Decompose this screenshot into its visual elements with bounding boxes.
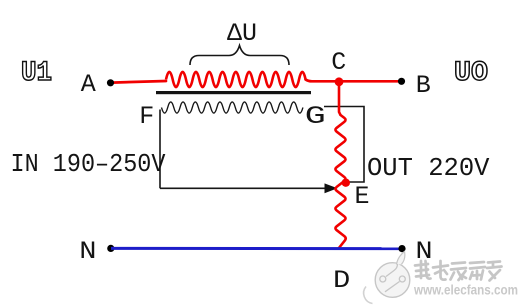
svg-text:www.elecfans.com: www.elecfans.com bbox=[413, 282, 518, 298]
node B terminal dot bbox=[398, 78, 405, 85]
wire C down to winding bbox=[339, 82, 341, 115]
svg-text:B: B bbox=[416, 71, 431, 100]
svg-text:U1: U1 bbox=[21, 58, 52, 89]
autotransformer upper winding A-C (red coil) bbox=[166, 72, 306, 87]
brace over upper winding bbox=[190, 46, 289, 66]
wire A to winding bbox=[112, 81, 166, 83]
svg-text:E: E bbox=[355, 182, 370, 211]
label G bbox=[305, 103, 326, 131]
node E junction dot (red wiper tap) bbox=[342, 179, 350, 187]
wiper arrowhead pointing at E bbox=[325, 183, 338, 193]
svg-text:IN 190–250V: IN 190–250V bbox=[11, 149, 166, 179]
node D label bbox=[333, 268, 350, 296]
node N right terminal dot bbox=[398, 245, 405, 252]
node C junction dot (red) bbox=[335, 77, 344, 86]
neutral wire N-N (blue) bbox=[111, 247, 402, 250]
wire bottom horizontal to wiper arrow bbox=[160, 187, 326, 189]
watermark logo circle bbox=[375, 252, 410, 298]
svg-text:D: D bbox=[333, 268, 350, 296]
transformer core bar bbox=[156, 91, 311, 94]
secondary sense winding F-G (black) bbox=[162, 102, 303, 113]
svg-text:A: A bbox=[81, 70, 96, 99]
node N right label bbox=[415, 239, 432, 267]
svg-text:F: F bbox=[139, 102, 154, 131]
watermark partial circle at left bbox=[364, 287, 373, 304]
svg-text:N: N bbox=[79, 239, 96, 267]
svg-text:ΔU: ΔU bbox=[227, 19, 257, 48]
wire F down bbox=[159, 110, 161, 189]
svg-text:C: C bbox=[331, 48, 346, 77]
node A terminal dot over wire bbox=[107, 79, 114, 86]
svg-text:N: N bbox=[415, 239, 432, 267]
svg-text:UO: UO bbox=[454, 58, 488, 89]
autotransformer lower winding C-D (red vertical coil) bbox=[335, 115, 345, 249]
node N left label bbox=[79, 239, 96, 267]
wire winding to node C to node B bbox=[306, 80, 401, 82]
svg-text:G: G bbox=[305, 103, 326, 131]
wire G right and down to E bbox=[324, 107, 364, 183]
node N left terminal dot bbox=[107, 245, 114, 252]
watermark brand glyphs bbox=[415, 261, 502, 281]
svg-text:OUT 220V: OUT 220V bbox=[367, 153, 490, 183]
